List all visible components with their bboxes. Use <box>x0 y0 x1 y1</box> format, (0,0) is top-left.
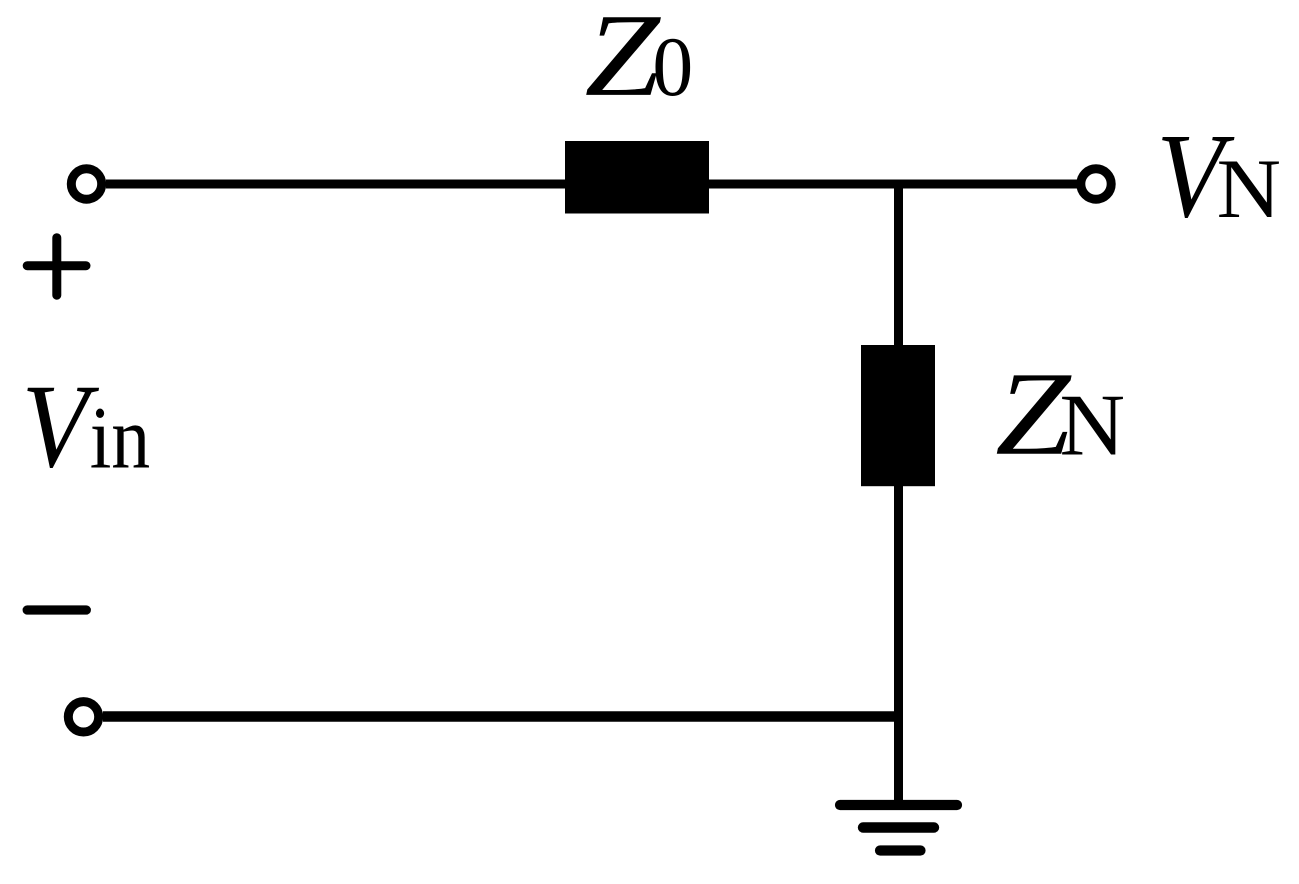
wire: vertical branch from node VN through ZN to ground <box>894 184 903 801</box>
value label Vin <box>22 360 100 492</box>
polarity mark - <box>27 605 86 614</box>
terminal: + input (top-left open circle) <box>71 169 101 199</box>
svg-text:N: N <box>1217 142 1281 235</box>
impedance ZN (shunt block) <box>861 345 935 486</box>
value label Z0 <box>585 0 662 121</box>
wire: top net from + input terminal through Z0 to VN output <box>106 180 1078 189</box>
svg-text:0: 0 <box>652 20 693 114</box>
terminal: VN output (top-right open circle) <box>1081 169 1111 199</box>
svg-text:Z: Z <box>585 0 662 121</box>
polarity mark + <box>27 238 86 296</box>
wire: bottom return net from - input terminal to ground junction <box>103 711 903 722</box>
value label ZN <box>995 347 1072 480</box>
node label VN <box>1156 110 1234 244</box>
impedance Z0 (series block) <box>565 141 709 214</box>
ground symbol <box>840 805 957 851</box>
terminal: - input (bottom-left open circle) <box>68 702 98 732</box>
svg-text:V: V <box>22 360 100 492</box>
svg-text:N: N <box>1060 377 1126 474</box>
svg-text:in: in <box>90 390 151 488</box>
